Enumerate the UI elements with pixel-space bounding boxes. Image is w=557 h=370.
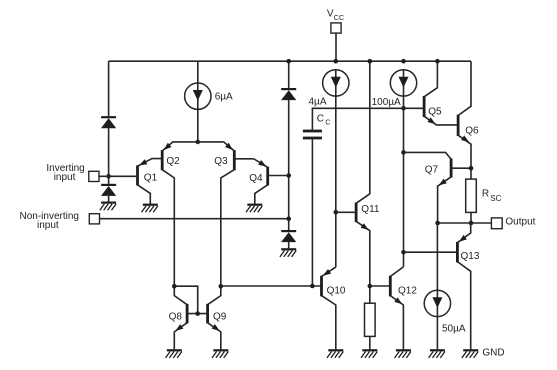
svg-text:Q11: Q11 [361,204,380,215]
ground R1 [361,350,377,358]
wire 4uA output [335,96,337,267]
label Q4 [249,173,263,184]
node Cc tap [310,284,315,289]
node bus Q5 junction [435,59,440,64]
diode D3 [281,89,296,100]
node right rail bus junction [286,59,291,64]
svg-text:C: C [317,114,324,125]
node Q2-Q8 collectors [172,284,177,289]
label 100uA [372,97,401,108]
label GND [482,348,504,359]
svg-text:Q9: Q9 [213,311,227,322]
label 50uA [442,324,466,335]
svg-text:Q8: Q8 [169,311,183,322]
svg-text:Q4: Q4 [249,173,263,184]
ground Q1 [142,205,158,213]
svg-text:6µA: 6µA [215,91,233,102]
node Q3-Q9 collectors [219,284,224,289]
current source 4uA [323,70,349,96]
wire left rail mid [108,128,110,184]
node output junction [469,221,474,226]
ground Q10 [327,350,343,358]
node non-inverting junction [286,216,291,221]
svg-text:Q3: Q3 [214,156,228,167]
label Q1 [144,173,158,184]
label Q11 [361,204,380,215]
wire D2 to ground [108,196,110,202]
wire D4 to ground [288,242,290,248]
svg-text:C: C [325,118,330,127]
svg-text:Q1: Q1 [144,173,158,184]
wire inverting input to Q1 base [99,175,136,177]
transistor Q11 [336,61,370,303]
resistor RSC [466,179,477,212]
transistor Q5 [424,61,458,125]
svg-text:Q2: Q2 [166,156,180,167]
wire stage1 output to Q10 base [221,285,322,287]
wire 6uA to input pair [197,109,199,141]
ground right rail [280,249,296,257]
node compensation line junction [401,106,406,111]
transistor Q3 [198,142,254,286]
label Q12 [398,286,417,297]
label Output [505,217,535,228]
svg-text:Output: Output [505,217,535,228]
label Q10 [327,285,346,296]
node bus Q11 junction [368,59,373,64]
label Q7 [425,165,439,176]
svg-text:input: input [54,172,76,183]
label Cc [317,114,331,127]
node Q4 base junction [286,173,291,178]
label Inverting input [46,163,84,183]
terminal non-inverting input [89,214,99,224]
wire Cc bottom lead [311,139,313,286]
current source 50uA [424,290,450,316]
svg-text:Q7: Q7 [425,165,439,176]
wire non-inverting input line [100,218,289,220]
ground Q8 [166,350,182,358]
transistor Q7 [404,152,472,223]
node Q7 emitter junction [435,221,440,226]
wire R1 to ground [369,336,371,349]
ground Q4 [246,205,262,213]
ground left rail [100,203,116,211]
wire output lead [471,222,491,224]
wire right rail upper [288,61,290,88]
label Q8 [169,311,183,322]
transistor Q2 [162,142,198,286]
node Q13 base junction [401,250,406,255]
wire left rail upper [108,61,110,116]
label 6uA [215,91,233,102]
wire Q12 base [370,285,391,287]
label Q6 [465,126,479,137]
label Q9 [213,311,227,322]
wire output to 50uA [436,223,438,290]
node 100uA bus junction [401,59,406,64]
diode D1 [101,117,116,128]
label RSC [482,189,502,203]
svg-text:Q10: Q10 [327,285,346,296]
wire RSC to output node [470,212,472,223]
svg-text:Q5: Q5 [428,107,442,118]
svg-text:R: R [482,189,489,200]
wire 100uA output [403,96,405,267]
label Q3 [214,156,228,167]
transistor Q4 [254,159,289,204]
transistor Q10 [322,267,336,349]
diode D2 [101,185,116,196]
terminal inverting input [89,171,99,181]
label VCC [327,9,344,22]
wire 50uA to ground [436,317,438,350]
wire 6uA source drop [197,61,199,83]
node mirror base junction [195,311,200,316]
resistor R1 [365,303,376,336]
svg-text:100µA: 100µA [372,97,401,108]
terminal VCC [331,23,341,61]
ground Q9 [212,350,228,358]
ground Q12 [395,350,411,358]
label Non-inverting input [20,211,79,231]
label Q2 [166,156,180,167]
node input pair tail [196,140,201,145]
svg-text:Q6: Q6 [465,126,479,137]
label Q5 [428,107,442,118]
node Q12 base junction [368,284,373,289]
svg-text:SC: SC [490,194,501,203]
svg-text:Q12: Q12 [398,286,417,297]
ground 50uA [429,350,445,358]
transistor Q1 [138,159,162,204]
transistor Q9 [208,286,221,349]
ground Q13 [462,350,478,358]
capacitor Cc [303,130,322,140]
svg-text:Q13: Q13 [461,251,480,262]
wire mirror base tie [174,286,197,313]
transistor Q6 [458,61,471,179]
diode D4 [281,231,296,242]
svg-text:input: input [37,220,59,231]
node Q7 collector junction [401,150,406,155]
label 4uA [309,96,327,107]
current source 6uA [185,83,211,109]
wire VCC power bus [109,60,471,62]
wire right rail mid [288,100,290,230]
svg-text:CC: CC [334,13,344,22]
node Q11 base junction [334,210,339,215]
wire output node [438,222,471,224]
node VCC bus junction [334,59,339,64]
wire Cc top lead [312,108,424,129]
transistor Q12 [390,267,403,349]
transistor Q13 [404,223,471,349]
svg-text:4µA: 4µA [309,96,327,107]
svg-text:50µA: 50µA [442,324,466,335]
node Q7 base junction [469,166,474,171]
terminal Output [491,218,502,229]
node inverting input junction [106,174,111,179]
label Q13 [461,251,480,262]
svg-text:GND: GND [482,348,504,359]
transistor Q8 [174,286,207,349]
current source 100uA [390,70,416,96]
